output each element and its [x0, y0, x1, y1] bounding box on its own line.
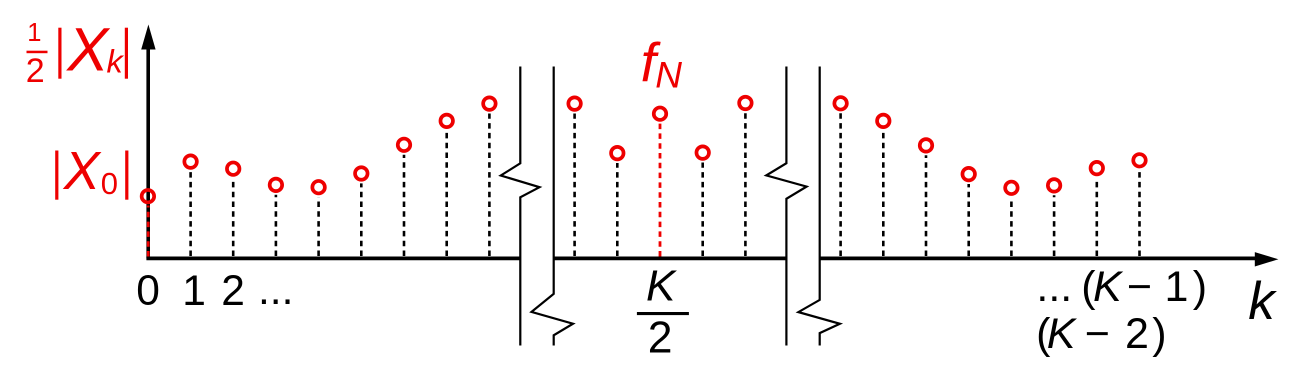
svg-text:2: 2	[26, 52, 45, 90]
svg-text:N: N	[655, 55, 682, 96]
svg-text:...: ...	[1036, 263, 1072, 311]
axis break 1 right line with zigzag	[532, 67, 574, 346]
stem k=7	[440, 115, 453, 256]
svg-text:K: K	[1047, 310, 1078, 358]
stem k=8	[483, 97, 496, 256]
y-axis	[141, 25, 155, 259]
stem K/2-2	[568, 97, 581, 256]
label fN (red, above K/2 stem)	[641, 31, 683, 96]
axis break 2 left line with zigzag	[766, 67, 806, 346]
svg-text:): )	[1152, 310, 1166, 358]
stem k=2	[227, 162, 240, 256]
stem k=4	[312, 181, 325, 256]
svg-text:...: ...	[258, 267, 293, 314]
stem k=6	[398, 139, 411, 256]
stem K/2 (Nyquist, red dashed)	[654, 107, 667, 256]
stem K-5	[1005, 182, 1018, 256]
stem K-2	[1133, 154, 1146, 256]
svg-text:−: −	[1127, 263, 1152, 311]
svg-text:1: 1	[1165, 263, 1189, 311]
svg-text:X: X	[65, 15, 110, 84]
svg-text:K: K	[646, 262, 677, 311]
stem K-4	[1048, 179, 1061, 256]
stem K/2+1	[696, 146, 709, 256]
svg-text:2: 2	[648, 314, 673, 363]
svg-text:2: 2	[221, 268, 245, 315]
stem K-9	[834, 97, 847, 256]
stem k=5	[355, 167, 368, 256]
stem K/2+2	[739, 97, 752, 256]
stem k=1	[184, 155, 197, 256]
axis break 1 left line with zigzag	[501, 67, 540, 346]
stem K-7	[920, 139, 933, 256]
label K/2 (fraction below axis)	[637, 262, 689, 363]
stem K/2-1	[611, 147, 624, 256]
svg-text:1: 1	[27, 19, 41, 47]
stem K-6	[962, 168, 975, 256]
svg-text:k: k	[107, 44, 125, 80]
svg-text:0: 0	[136, 268, 160, 315]
svg-text:−: −	[1085, 310, 1110, 358]
stem k=3	[270, 179, 283, 256]
stem k=0 (red dashed over y-axis)	[142, 190, 155, 257]
label |X0| (red)	[55, 141, 128, 201]
svg-text:): )	[1193, 263, 1207, 311]
x-axis (3 segments between break lines)	[146, 252, 1278, 266]
axis break 2 right line with zigzag	[798, 67, 840, 346]
svg-text:K: K	[1093, 263, 1124, 311]
label 1/2 |Xk| (red, y-axis label)	[26, 15, 128, 90]
svg-text:X: X	[62, 141, 102, 201]
label (K-2)	[1036, 310, 1166, 358]
stem K-8	[877, 115, 890, 256]
svg-text:k: k	[1248, 272, 1277, 331]
svg-text:1: 1	[182, 268, 206, 315]
label ...(K-1)	[1036, 263, 1207, 311]
svg-text:2: 2	[1125, 310, 1149, 358]
x tick labels 0 1 2 ...	[136, 267, 293, 315]
stem K-3	[1091, 162, 1104, 256]
svg-text:0: 0	[101, 166, 118, 201]
